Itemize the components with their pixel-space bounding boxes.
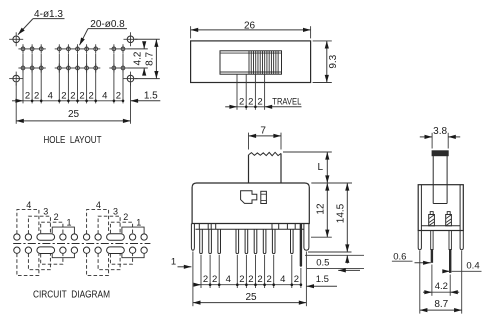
svg-text:2: 2 xyxy=(34,90,39,101)
switch body (front) xyxy=(192,183,309,224)
knob shaft (side) xyxy=(433,156,447,204)
body inner walls xyxy=(421,185,460,231)
svg-text:0.5: 0.5 xyxy=(316,258,329,269)
switch frame (top view) xyxy=(191,41,311,83)
dimension 14.5 (body+support height) xyxy=(308,183,352,252)
svg-text:4: 4 xyxy=(26,200,31,210)
slider contact row 2 (pole 2) xyxy=(107,247,125,254)
svg-text:2: 2 xyxy=(248,274,253,285)
position labels xyxy=(26,200,71,227)
pin extension lines (front) xyxy=(193,252,307,307)
terminals row 2 xyxy=(14,247,78,253)
position 4 wire (pole 2) xyxy=(87,210,109,234)
dimension 8.7 (leg span, side) xyxy=(420,251,462,314)
svg-text:2: 2 xyxy=(70,90,75,101)
svg-text:2: 2 xyxy=(89,90,94,101)
svg-text:4: 4 xyxy=(48,90,53,101)
left outer leg xyxy=(418,231,421,250)
chained dimension 2 2 4 2 2 2 2 4 2 xyxy=(12,90,124,102)
label TRAVEL with leader xyxy=(265,97,302,107)
dimension 0.6 (pin thickness) xyxy=(392,251,431,262)
position 1 wire lower xyxy=(52,254,74,258)
svg-text:2: 2 xyxy=(294,274,299,285)
dimension 26 (frame length) xyxy=(191,20,311,38)
small holes row 2 xyxy=(18,63,127,72)
svg-text:2: 2 xyxy=(212,274,217,285)
position 2 wire (pole 2) xyxy=(110,222,132,234)
right outer leg xyxy=(460,231,463,250)
svg-text:CIRCUIT DIAGRAM: CIRCUIT DIAGRAM xyxy=(33,288,110,300)
switch section (pole 2) terminals row 1 xyxy=(83,234,147,240)
knob (front) with knurled top xyxy=(249,152,282,183)
dimension 0.5 (pin seat) xyxy=(305,255,364,268)
travel extension lines xyxy=(237,74,265,110)
svg-text:2: 2 xyxy=(257,274,262,285)
position 1 wire lower (pole 2) xyxy=(122,254,144,258)
svg-text:2: 2 xyxy=(239,96,244,107)
right support peg xyxy=(304,224,309,251)
corner hole bottom-left xyxy=(9,72,23,86)
svg-text:2: 2 xyxy=(54,212,59,222)
dimension 1 (pin stickout) with leader xyxy=(307,268,364,270)
top view of switch xyxy=(191,20,339,110)
chained pin dimension 2 2 4 2 2 2 2 4 2 xyxy=(194,274,303,286)
position 3 wire lower (pole 2) xyxy=(98,254,120,270)
svg-text:2: 2 xyxy=(116,90,121,101)
svg-text:2: 2 xyxy=(267,274,272,285)
circuit diagram xyxy=(13,200,150,300)
position 4 wire lower (pole 2) xyxy=(87,254,109,276)
slider slot xyxy=(220,51,282,74)
dimension 1.5 (last pin to support) xyxy=(306,274,337,286)
contact terminal right (hatched) xyxy=(446,212,452,226)
dimension 7 (knob width) xyxy=(249,126,282,150)
left inner pin xyxy=(431,231,433,263)
position 4 wire xyxy=(17,210,39,234)
svg-text:2: 2 xyxy=(61,90,66,101)
svg-text:3: 3 xyxy=(43,207,48,217)
small window symbol xyxy=(261,191,267,203)
left support peg xyxy=(191,224,194,251)
slider contact row 2 xyxy=(37,247,55,254)
dimension 1 (support width) xyxy=(171,257,192,268)
svg-text:TRAVEL: TRAVEL xyxy=(272,97,301,107)
position labels (pole 2) xyxy=(96,200,141,227)
svg-text:4.2: 4.2 xyxy=(133,51,144,65)
detent latch symbol xyxy=(241,191,257,204)
terminals row 2 (pole 2) xyxy=(83,247,147,253)
dimension 4.2 (row pitch) xyxy=(128,42,148,76)
label 20-dia0.8 leader xyxy=(80,19,128,45)
pin 4 xyxy=(236,229,239,254)
svg-text:25: 25 xyxy=(68,109,80,120)
position 3 wire (pole 2) xyxy=(98,216,120,234)
position 1 wire (pole 2) xyxy=(122,227,144,234)
dimension 0.4 (pin thickness) xyxy=(443,261,482,272)
svg-text:2: 2 xyxy=(248,96,253,107)
knob grip serrations xyxy=(249,51,278,74)
switch section terminals row 1 xyxy=(14,234,78,240)
dimension L (knob height) xyxy=(283,152,332,183)
svg-text:0.4: 0.4 xyxy=(466,261,479,272)
svg-text:4: 4 xyxy=(102,90,107,101)
corner hole bottom-right xyxy=(124,72,138,86)
dimension 8.7 (corner hole pitch) xyxy=(135,39,160,78)
svg-text:8.7: 8.7 xyxy=(144,52,155,66)
svg-text:4: 4 xyxy=(96,200,101,210)
svg-text:1: 1 xyxy=(66,218,71,228)
slot inner edges xyxy=(220,53,282,72)
terminal seat plate xyxy=(196,228,304,230)
pin 7 xyxy=(263,229,266,254)
svg-text:L: L xyxy=(318,162,324,173)
svg-text:2: 2 xyxy=(123,212,128,222)
svg-text:12: 12 xyxy=(316,203,327,215)
svg-text:4: 4 xyxy=(280,274,285,285)
small holes row 1 xyxy=(18,44,127,53)
hole layout view xyxy=(9,9,160,146)
position 2 wire lower (pole 2) xyxy=(110,254,132,265)
label 4-dia1.3 leader xyxy=(18,9,65,35)
pin 2 xyxy=(209,229,212,254)
dimension 25 (pin span) xyxy=(193,292,307,303)
pin 5 xyxy=(245,229,248,254)
position 2 wire lower xyxy=(41,254,63,265)
switch body (side) xyxy=(418,185,463,231)
svg-text:25: 25 xyxy=(245,292,257,303)
svg-text:2: 2 xyxy=(257,96,262,107)
pole centerline xyxy=(13,243,150,245)
slider contact row 1 (pole 2) xyxy=(107,234,125,241)
corner hole top-left xyxy=(9,32,23,46)
svg-text:9.3: 9.3 xyxy=(328,54,339,68)
front view of switch xyxy=(171,126,364,307)
position 3 wire lower xyxy=(28,254,50,270)
dimension 3.8 (knob thickness) xyxy=(420,126,460,149)
dimension 12 (body height) xyxy=(311,183,352,237)
svg-text:1: 1 xyxy=(136,218,141,228)
svg-text:4.2: 4.2 xyxy=(435,281,448,292)
position 1 wire xyxy=(52,227,74,234)
svg-text:14.5: 14.5 xyxy=(336,203,347,223)
position 3 wire xyxy=(28,216,50,234)
pin 1 xyxy=(200,229,203,254)
side view of switch xyxy=(392,126,482,314)
svg-text:2: 2 xyxy=(25,90,30,101)
dimension 4.2 (pin pitch, side) xyxy=(423,265,459,296)
svg-text:8.7: 8.7 xyxy=(434,299,448,310)
dimension 1.5 (edge hole) xyxy=(131,90,161,101)
slider contact row 1 xyxy=(37,234,55,241)
terminal blocks xyxy=(199,224,295,230)
svg-text:1.5: 1.5 xyxy=(316,274,329,285)
svg-text:26: 26 xyxy=(244,20,256,31)
knob cap (side) xyxy=(432,151,448,156)
dimension 25 (hole layout width) xyxy=(16,109,130,121)
contact terminal left (hatched) xyxy=(429,212,435,226)
svg-text:1: 1 xyxy=(171,257,176,268)
corner hole top-right xyxy=(124,32,138,46)
pin 3 xyxy=(218,229,221,254)
svg-text:1.5: 1.5 xyxy=(144,90,158,101)
pin 10 xyxy=(300,224,302,267)
svg-text:HOLE LAYOUT: HOLE LAYOUT xyxy=(44,134,102,146)
dimension 2 2 2 travel xyxy=(225,96,264,108)
position 4 wire lower xyxy=(17,254,39,276)
dimension 9.3 (frame width) xyxy=(313,41,339,83)
position 2 wire xyxy=(41,222,63,234)
svg-text:4: 4 xyxy=(226,274,231,285)
svg-text:3: 3 xyxy=(113,207,118,217)
pin 8 xyxy=(272,229,275,254)
svg-text:2: 2 xyxy=(79,90,84,101)
svg-text:2: 2 xyxy=(203,274,208,285)
svg-text:3.8: 3.8 xyxy=(433,126,447,137)
svg-text:2: 2 xyxy=(239,274,244,285)
right inner pin xyxy=(449,231,451,273)
pin 9 xyxy=(291,229,294,254)
pin 6 xyxy=(254,229,257,254)
hole extension lines xyxy=(16,54,130,124)
svg-text:7: 7 xyxy=(260,126,266,137)
